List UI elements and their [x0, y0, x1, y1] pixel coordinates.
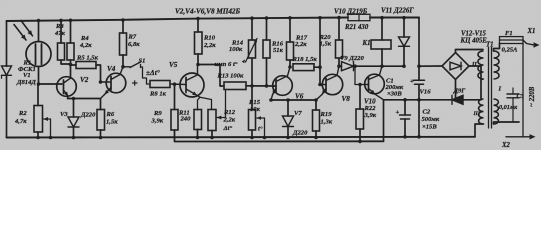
transistor V10	[365, 74, 385, 94]
trimmer R14	[251, 18, 253, 40]
resistor R17	[289, 18, 291, 42]
transistor V2	[57, 77, 77, 97]
resistor R5	[71, 64, 77, 66]
node rail K1	[380, 16, 384, 20]
node V4 base	[99, 80, 103, 84]
bridge V12-V15	[442, 53, 469, 80]
winding I upper	[494, 51, 500, 79]
wire top rail right of R21	[370, 17, 419, 19]
wire right rail corner down to +C1 node	[418, 18, 420, 67]
photoresistor R1	[38, 21, 40, 42]
node V7 rail	[286, 136, 290, 140]
winding I lower	[494, 99, 499, 124]
wire left frame lower	[6, 76, 8, 138]
resistor R6	[100, 99, 102, 110]
plus mark	[133, 82, 138, 84]
switch S1	[123, 66, 130, 68]
resistor R11	[194, 110, 202, 130]
transistor V5	[180, 73, 204, 97]
node R22 base	[358, 83, 362, 87]
R2 wiper	[44, 117, 49, 121]
node rail R17	[288, 16, 292, 20]
winding II lower	[479, 99, 484, 124]
resistor R2	[37, 84, 39, 106]
trimmer R12	[208, 110, 216, 131]
node R22 reg line	[358, 140, 362, 144]
node R7-V4-S1	[121, 65, 125, 69]
transistor V8	[322, 74, 342, 94]
wire primary top to fuse	[494, 44, 500, 52]
wire bridge bottom down	[455, 80, 457, 100]
wire mains vertical	[522, 44, 524, 137]
node V5 collector	[196, 63, 200, 67]
node rail R4	[69, 19, 73, 23]
relay K1	[381, 18, 383, 40]
diode V7	[287, 100, 289, 116]
node rail-R1	[37, 19, 41, 23]
node R20-V9-V8coll	[337, 64, 341, 68]
wire base line V2	[39, 83, 63, 85]
wire collector node to R13	[198, 65, 224, 87]
node bridge +	[417, 64, 421, 68]
capacitor C2	[404, 100, 406, 115]
node rail R7	[121, 18, 125, 22]
node V7 top	[286, 98, 290, 102]
wire winding II lower bottom	[475, 124, 484, 137]
diode V3	[73, 99, 75, 118]
wire emitter line y100	[271, 99, 316, 101]
node R4-R5-collector	[69, 63, 73, 67]
diode V10p resistor R21 parallel block	[348, 14, 370, 20]
node R2 rail	[36, 136, 40, 140]
light arrows	[14, 25, 26, 41]
wire bridge left	[419, 65, 442, 67]
zener V1	[6, 65, 8, 67]
diode V9	[339, 65, 342, 67]
node R11 rail	[196, 136, 200, 140]
capacitor C1	[418, 66, 420, 80]
node rail V11	[402, 16, 406, 20]
wire emitter line y98.5	[68, 98, 101, 100]
resistor R18	[293, 64, 314, 71]
wire plus line y66	[372, 65, 404, 67]
wire primary bottom	[494, 122, 520, 124]
plug pin X1	[523, 40, 533, 45]
node C2 top	[403, 98, 407, 102]
wire left frame upper	[6, 21, 8, 66]
wire V5 emitter to R11 and R12	[198, 97, 201, 110]
resistor R7	[122, 20, 124, 33]
node C1 bottom	[417, 98, 421, 102]
node V6 emitter	[269, 98, 273, 102]
resistor R13	[224, 82, 246, 90]
node V8 emitter R19	[314, 98, 318, 102]
node R1-R2-base	[37, 82, 41, 86]
node R8-R9	[173, 82, 177, 86]
node K1 bottom	[380, 64, 384, 68]
resistor R8	[150, 81, 170, 88]
plug pin X2	[506, 136, 529, 138]
node R17-R18	[288, 65, 292, 69]
node V3 top	[72, 97, 76, 101]
wire regulated vertical	[383, 100, 385, 142]
wire V10 base drop	[354, 66, 356, 84]
resistor R22	[359, 85, 361, 110]
wire bottom common rail	[7, 136, 476, 139]
node R19 rail	[314, 136, 318, 140]
node rail R16	[265, 16, 269, 20]
resistor R20	[338, 18, 340, 40]
resistor R10	[197, 19, 199, 32]
node R18 right	[318, 65, 322, 69]
wire C1 branch to rail	[418, 100, 420, 137]
diode V16	[452, 95, 463, 104]
transformer T1 core	[488, 48, 490, 129]
fuse F1	[500, 37, 524, 44]
winding II upper	[478, 51, 484, 79]
resistor R3	[60, 20, 62, 43]
diode V11	[403, 18, 405, 37]
wire bridge top to winding	[456, 50, 484, 53]
wire rail drop x320	[319, 18, 321, 67]
node rail R10	[196, 17, 200, 21]
node R12 rail	[210, 136, 214, 140]
resistor R16	[266, 18, 268, 40]
wire output line y100	[384, 99, 452, 101]
transistor V4	[106, 73, 126, 93]
node R6 rail	[99, 136, 103, 140]
node V11 bottom	[402, 64, 406, 68]
resistor R4	[70, 20, 72, 43]
node C2 rail	[403, 135, 407, 139]
resistor R15	[251, 86, 253, 110]
wire top supply rail	[7, 18, 349, 22]
resistor R9	[174, 84, 176, 109]
node rail R14	[250, 16, 254, 20]
wire winding II upper bottom jog	[481, 79, 484, 80]
resistor R19	[315, 100, 317, 110]
node rail R20	[337, 16, 341, 20]
wire bridge right down	[469, 66, 481, 100]
node V3 rail	[72, 136, 76, 140]
node R13-R16	[265, 84, 269, 88]
node V8 base	[318, 83, 322, 87]
transistor V6	[273, 76, 293, 96]
wire R13 right	[246, 85, 276, 87]
capacitor C3	[512, 88, 514, 94]
node R13-R14	[250, 84, 254, 88]
node x419 rail	[417, 135, 421, 139]
node R15 rail	[250, 136, 254, 140]
wire R9 to regulated line	[175, 130, 384, 142]
node rail R3	[59, 19, 63, 23]
node rail x320	[318, 16, 322, 20]
